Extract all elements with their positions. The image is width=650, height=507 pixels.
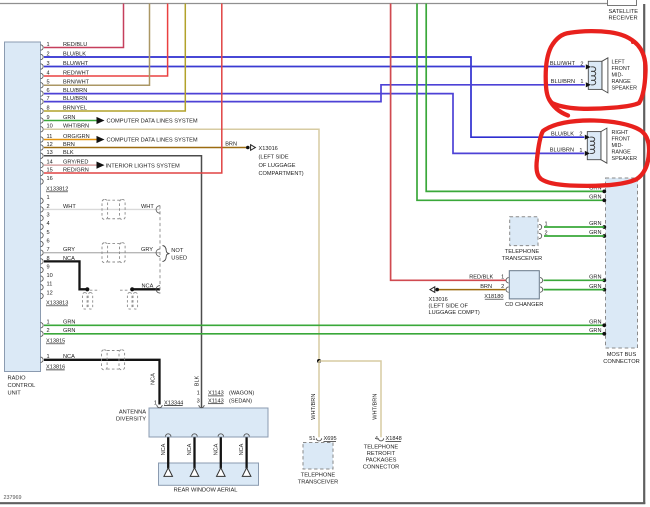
- wire pin3 BLU/WHT to left speaker pin2: [44, 66, 585, 68]
- svg-text:PACKAGES: PACKAGES: [366, 458, 397, 464]
- arrow computer data lines (pin9): [97, 117, 105, 124]
- svg-text:2: 2: [579, 132, 582, 138]
- svg-text:1: 1: [580, 79, 583, 85]
- svg-text:SPEAKER: SPEAKER: [612, 85, 638, 91]
- svg-text:RADIO: RADIO: [8, 376, 27, 382]
- svg-text:6: 6: [47, 238, 50, 244]
- svg-text:TRANSCEIVER: TRANSCEIVER: [502, 256, 542, 262]
- svg-text:GRY: GRY: [141, 247, 153, 253]
- aerial wire NCA 3: [218, 434, 223, 437]
- pin 4 X1848: [378, 438, 383, 441]
- connector X13016 symbol: [246, 146, 250, 150]
- svg-text:RANGE: RANGE: [612, 79, 632, 85]
- svg-text:LEFT: LEFT: [612, 59, 626, 65]
- wire NCA to not-used group: [132, 288, 160, 290]
- svg-text:(WAGON): (WAGON): [229, 391, 254, 397]
- wire NCA X13816 to antenna diversity: [44, 360, 160, 405]
- wire pin4 RED/WHT to top edge: [44, 4, 168, 77]
- svg-text:BLK: BLK: [195, 375, 201, 386]
- svg-text:BLU/BRN: BLU/BRN: [551, 79, 575, 85]
- svg-text:COMPARTMENT): COMPARTMENT): [259, 171, 304, 177]
- wire pin6 BLU/BRN to right speaker pin1: [44, 94, 584, 154]
- svg-text:NCA: NCA: [213, 443, 219, 455]
- aerial element 4: [242, 468, 251, 477]
- MOST bus wire junction: [602, 225, 606, 229]
- svg-text:NCA: NCA: [142, 283, 154, 289]
- svg-text:WHT: WHT: [141, 204, 154, 210]
- svg-text:11: 11: [47, 282, 53, 288]
- wire GRN tel pin1 to MOST: [544, 226, 604, 228]
- X133813 pin 10: [41, 276, 44, 281]
- svg-text:CD CHANGER: CD CHANGER: [505, 302, 543, 308]
- right front mid-range speaker: [601, 128, 607, 163]
- svg-text:1: 1: [47, 195, 50, 201]
- MOST bus wire junction: [602, 323, 606, 327]
- svg-text:BLU/WHT: BLU/WHT: [550, 61, 576, 67]
- X133813 pin 1: [41, 198, 44, 203]
- svg-text:RIGHT: RIGHT: [612, 130, 629, 136]
- right border: [643, 4, 645, 504]
- wire pin10 WHT/BRN long net to telephone units: [44, 129, 319, 361]
- connector X13016 symbol (luggage compt): [430, 287, 435, 293]
- svg-text:1: 1: [501, 275, 504, 281]
- not-used entry curl: [156, 206, 160, 214]
- aerial wire NCA 4: [244, 434, 249, 437]
- arrow interior lights system: [97, 162, 105, 169]
- X133813 pin 3: [41, 215, 44, 220]
- svg-text:GRN: GRN: [589, 328, 601, 334]
- svg-text:1: 1: [579, 148, 582, 154]
- svg-text:51: 51: [309, 436, 315, 442]
- svg-text:CONNECTOR: CONNECTOR: [363, 464, 400, 470]
- aerial wire NCA 1: [166, 434, 171, 437]
- svg-text:3: 3: [197, 398, 200, 404]
- not used brace: [163, 246, 170, 262]
- X13816 pin 1 NCA: [41, 357, 44, 362]
- radio pin 4 RED/WHT: [41, 73, 44, 78]
- X133813 pin 4: [41, 224, 44, 229]
- X13815 pin 2 GRN: [41, 331, 44, 336]
- svg-text:BRN: BRN: [225, 142, 237, 148]
- MOST bus wire junction: [602, 198, 606, 202]
- wire WHT/BRN branch to X1848: [319, 361, 381, 437]
- aerial element 1: [164, 468, 173, 477]
- svg-text:2: 2: [580, 61, 583, 67]
- svg-text:MID-: MID-: [612, 72, 624, 78]
- svg-text:10: 10: [47, 273, 53, 279]
- radio pin 9 GRN: [41, 118, 44, 123]
- svg-text:BLU/BLK: BLU/BLK: [551, 131, 574, 137]
- satellite receiver U-sat (cut off at top): [608, 0, 637, 6]
- MOST bus connector: [606, 178, 638, 348]
- radio pin 14 GRY/RED: [41, 162, 44, 167]
- wire GRN CD pin2 to MOST: [540, 287, 543, 292]
- wire pin5 BRN/WHT to top edge: [44, 4, 150, 86]
- radio pin 11 ORG/GRN: [41, 137, 44, 142]
- antenna diversity unit: [149, 408, 268, 437]
- radio pin 16: [41, 179, 44, 184]
- not used collector line: [159, 206, 161, 294]
- X133813 pin 12: [41, 293, 44, 298]
- svg-text:RANGE: RANGE: [612, 150, 632, 156]
- svg-text:12: 12: [47, 290, 53, 296]
- radio pin 7 BLU/BRN: [41, 99, 44, 104]
- wire pin13 BLK down to antenna diversity: [44, 156, 202, 408]
- svg-text:BRN: BRN: [480, 284, 492, 290]
- svg-text:MID-: MID-: [612, 143, 624, 149]
- X133813 pin 7 GRY: [41, 250, 44, 255]
- svg-text:DIVERSITY: DIVERSITY: [116, 417, 146, 423]
- svg-text:4: 4: [375, 436, 378, 442]
- MOST bus wire junction: [602, 288, 606, 292]
- wire pin7 BLU/BRN to left speaker pin1: [44, 85, 585, 102]
- svg-text:TELEPHONE: TELEPHONE: [505, 249, 540, 255]
- CD changer: [509, 271, 539, 299]
- wire WHT/BRN down to X695: [318, 361, 320, 437]
- wire X133813 pin7 GRY (not used): [44, 252, 160, 254]
- svg-text:16: 16: [47, 176, 53, 182]
- radio control unit: [5, 42, 41, 372]
- X133813 pin 8 NCA: [41, 259, 44, 264]
- MOST bus wire junction: [602, 190, 606, 194]
- annotation red circle around left speaker: [546, 31, 646, 109]
- wire pin8 BRN/YEL to top edge: [44, 4, 185, 112]
- svg-text:X13016: X13016: [259, 146, 278, 152]
- inline connector on X13816 NCA wire: [102, 350, 108, 370]
- svg-text:NCA: NCA: [151, 373, 157, 385]
- radio pin 2 BLU/BLK: [41, 54, 44, 59]
- radio pin 13 BLK: [41, 153, 44, 158]
- aerial element 2: [190, 468, 199, 477]
- pin 51 X695: [316, 438, 321, 441]
- rear window aerial box: [159, 463, 259, 485]
- wire pin1 RED/BLU to top edge: [44, 4, 124, 48]
- svg-text:NOT: NOT: [171, 248, 184, 254]
- arrow computer data lines (pin11): [97, 136, 105, 143]
- annotation red dot: [631, 41, 634, 44]
- svg-text:(SEDAN): (SEDAN): [229, 398, 252, 404]
- svg-text:ANTENNA: ANTENNA: [119, 409, 146, 415]
- wire pin15 RED/GRN to top edge: [44, 4, 222, 174]
- wire BRN from X13016 to CD changer pin2: [439, 289, 506, 291]
- top border line: [0, 3, 608, 5]
- svg-text:5: 5: [47, 230, 50, 236]
- MOST bus wire junction: [602, 234, 606, 238]
- inline connector (right half) on NCA wire: [127, 293, 132, 310]
- inline connector (left half) on NCA wire: [83, 293, 88, 310]
- svg-text:TELEPHONE: TELEPHONE: [364, 444, 399, 450]
- svg-text:COMPUTER DATA LINES SYSTEM: COMPUTER DATA LINES SYSTEM: [107, 138, 198, 144]
- not-used entry curl: [156, 249, 160, 257]
- svg-text:MOST BUS: MOST BUS: [607, 352, 637, 358]
- X133813 pin 6: [41, 241, 44, 246]
- X133813 pin 5: [41, 233, 44, 238]
- radio pin 6 BLU/BRN: [41, 91, 44, 96]
- wire pin12 BRN to X13016: [44, 147, 246, 149]
- bottom border: [0, 502, 645, 504]
- radio pin 3 BLU/WHT: [41, 64, 44, 69]
- aerial element 3: [217, 468, 226, 477]
- CD changer pin 1: [506, 278, 509, 283]
- wire pin11 ORG/GRN to computer data lines: [44, 139, 97, 141]
- svg-text:GRN: GRN: [589, 320, 601, 326]
- svg-text:INTERIOR LIGHTS SYSTEM: INTERIOR LIGHTS SYSTEM: [106, 163, 181, 169]
- svg-text:TELEPHONE: TELEPHONE: [301, 472, 336, 478]
- not-used entry curl: [156, 286, 160, 294]
- X133813 pin 2 WHT: [41, 207, 44, 212]
- svg-text:COMPUTER DATA LINES SYSTEM: COMPUTER DATA LINES SYSTEM: [107, 119, 198, 125]
- telephone transceiver (lower, dashed): [303, 443, 333, 470]
- svg-text:(LEFT SIDE: (LEFT SIDE: [259, 155, 289, 161]
- svg-text:1: 1: [154, 400, 157, 406]
- svg-text:FRONT: FRONT: [612, 137, 631, 143]
- svg-text:OF LUGGAGE: OF LUGGAGE: [259, 163, 296, 169]
- left front mid-range speaker: [602, 58, 608, 93]
- svg-text:WHT/BRN: WHT/BRN: [373, 394, 379, 420]
- radio pin 5 BRN/WHT: [41, 83, 44, 88]
- wire GRN tel pin2 to MOST: [544, 235, 604, 237]
- svg-text:CONTROL: CONTROL: [8, 383, 36, 389]
- svg-text:CONNECTOR: CONNECTOR: [603, 359, 640, 365]
- svg-text:WHT/BRN: WHT/BRN: [311, 394, 317, 420]
- svg-text:X13016: X13016: [429, 297, 448, 303]
- X133813 pin 9: [41, 267, 44, 272]
- tel transceiver pin 2: [539, 233, 542, 238]
- svg-text:BLU/BRN: BLU/BRN: [550, 148, 574, 154]
- svg-text:RED/BLK: RED/BLK: [469, 275, 493, 281]
- annotation tail stroke: [549, 99, 568, 116]
- svg-text:RECEIVER: RECEIVER: [609, 16, 638, 22]
- svg-text:3: 3: [47, 213, 50, 219]
- annotation red circle around right speaker: [536, 120, 649, 185]
- svg-text:USED: USED: [171, 255, 187, 261]
- inline connector on WHT wire: [102, 199, 108, 219]
- wire GRN X13815 pin1 to MOST bus: [44, 324, 604, 326]
- wire X133813 pin2 WHT (not used): [44, 208, 160, 210]
- X133813 pin 11: [41, 285, 44, 290]
- aerial wire NCA 2: [192, 434, 197, 437]
- svg-text:NCA: NCA: [239, 443, 245, 455]
- svg-text:TRANSCEIVER: TRANSCEIVER: [298, 480, 338, 486]
- radio pin 15 RED/GRN: [41, 170, 44, 175]
- svg-text:NCA: NCA: [161, 443, 167, 455]
- wire GRN (from top) to MOST bus upper2: [426, 4, 604, 192]
- svg-text:RETROFIT: RETROFIT: [367, 451, 396, 457]
- svg-text:9: 9: [47, 264, 50, 270]
- svg-text:NCA: NCA: [187, 443, 193, 455]
- inline connector on GRY wire: [102, 243, 108, 263]
- X13815 pin 1 GRN: [41, 323, 44, 328]
- svg-text:(LEFT SIDE OF: (LEFT SIDE OF: [429, 304, 469, 310]
- svg-text:1: 1: [197, 391, 200, 397]
- junction dot WHT/BRN: [317, 359, 321, 363]
- tel transceiver pin 1: [539, 224, 542, 229]
- wire pin14 GRY/RED to interior lights: [44, 164, 97, 166]
- wire pin2 BLU/BLK to right speaker pin2: [44, 57, 584, 137]
- telephone transceiver (dashed): [510, 217, 538, 246]
- radio pin 8 BRN/YEL: [41, 108, 44, 113]
- svg-text:SATELLITE: SATELLITE: [609, 9, 639, 15]
- svg-text:FRONT: FRONT: [612, 66, 631, 72]
- svg-text:4: 4: [47, 221, 50, 227]
- pin X1143 wagon/sedan: [199, 405, 204, 408]
- radio pin 12 BRN: [41, 145, 44, 150]
- svg-text:UNIT: UNIT: [8, 391, 22, 397]
- wire RED (from top) to CD changer RED/BLK: [391, 4, 507, 281]
- CD changer pin 2: [506, 287, 509, 292]
- wire GRN CD pin1 to MOST: [540, 278, 543, 283]
- svg-text:SPEAKER: SPEAKER: [612, 156, 638, 162]
- MOST bus wire junction: [602, 278, 606, 282]
- svg-text:GRN: GRN: [589, 195, 601, 201]
- svg-text:237969: 237969: [4, 495, 22, 501]
- radio pin 10 WHT/BRN: [41, 127, 44, 132]
- radio pin 1 RED/BLU: [41, 45, 44, 50]
- MOST bus wire junction: [602, 332, 606, 336]
- wire pin9 GRN to computer data lines: [44, 120, 97, 122]
- pin 1 X13344: [157, 405, 162, 408]
- wire X133813 pin8 NCA: [44, 261, 87, 289]
- svg-text:LUGGAGE COMPT): LUGGAGE COMPT): [429, 310, 480, 316]
- wire GRN (from top) to MOST bus upper1: [417, 4, 604, 201]
- wire GRN X13815 pin2 to MOST bus: [44, 333, 604, 335]
- svg-text:REAR WINDOW AERIAL: REAR WINDOW AERIAL: [174, 487, 238, 493]
